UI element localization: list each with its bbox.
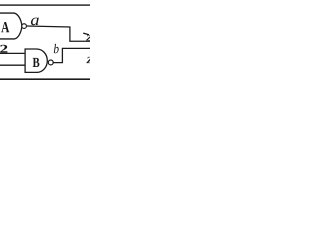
label 2 bbox=[0, 45, 7, 53]
label z-bar upper: overbar bbox=[83, 33, 89, 35]
gate A output bubble bbox=[22, 24, 27, 29]
bottom frame line bbox=[0, 78, 90, 80]
gate B output bubble bbox=[48, 60, 53, 65]
label a (italic) bbox=[31, 18, 39, 26]
gate A (NOR-type: curved body with pointed tip, clipped at left image edge) bbox=[0, 13, 22, 39]
gate B body (NAND) bbox=[25, 49, 47, 72]
wire lower input into gate B bbox=[0, 64, 25, 66]
label z lower (italic, clipped at right edge) bbox=[86, 57, 93, 63]
wire b: from bubble B, right, up at x=62.4, right to edge bbox=[53, 48, 90, 62]
label b (italic) bbox=[54, 44, 59, 53]
gate B label "B" bbox=[33, 58, 40, 67]
gate A label "A" bbox=[1, 22, 9, 32]
wire a: from bubble A, right, down at x=69.9, right to edge bbox=[27, 26, 90, 41]
top frame line bbox=[0, 4, 90, 5]
label z-bar upper: z glyph (clipped at right edge) bbox=[86, 35, 93, 40]
wire input 2 into gate B bbox=[0, 52, 25, 54]
